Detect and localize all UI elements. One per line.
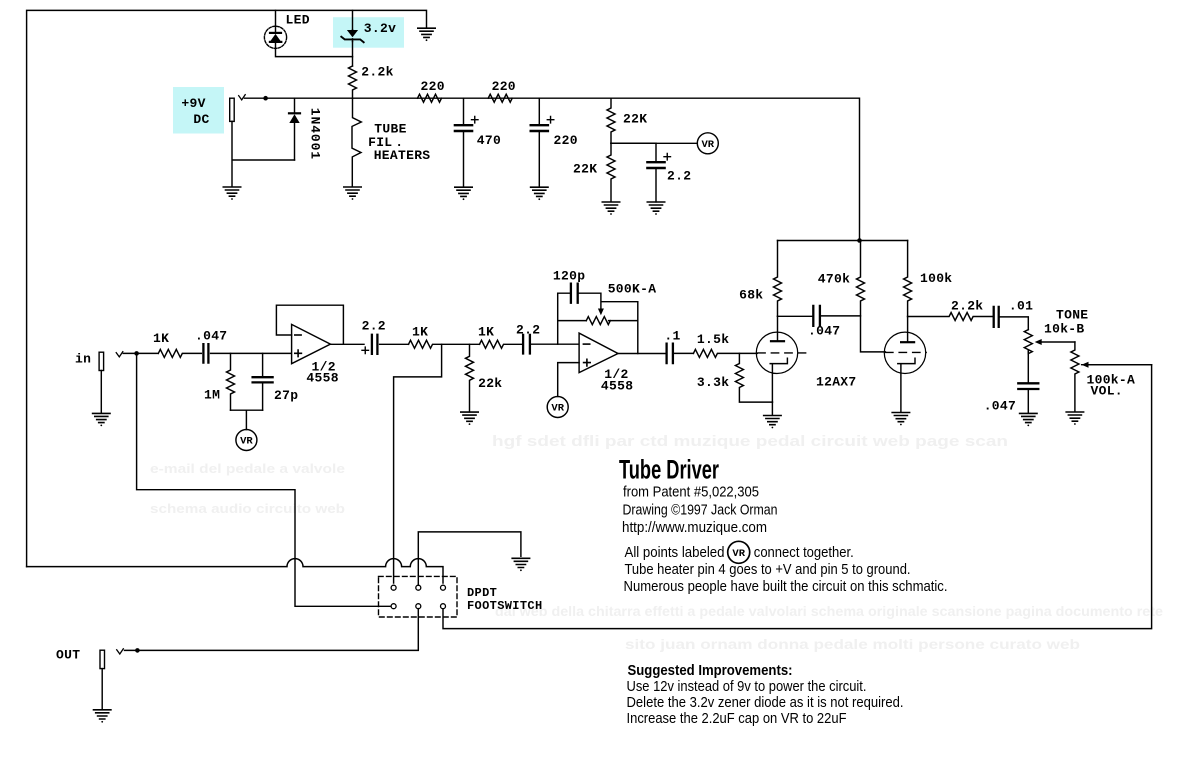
resistor 68k	[774, 241, 782, 317]
svg-text:2.2: 2.2	[516, 323, 540, 338]
svg-text:10k-B: 10k-B	[1044, 322, 1085, 337]
ground vol	[1066, 412, 1083, 425]
svg-text:VR: VR	[701, 139, 714, 151]
svg-text:VR: VR	[732, 548, 745, 560]
diode 1N4001	[289, 98, 300, 160]
ground top right	[418, 28, 435, 41]
wire VR node	[611, 142, 697, 144]
svg-text:3.2v: 3.2v	[364, 21, 396, 36]
capacitor .047 tone	[1018, 350, 1038, 413]
svg-text:1M: 1M	[204, 388, 220, 403]
svg-text:220: 220	[554, 133, 578, 148]
potentiometer VOL 100k-A	[1071, 342, 1152, 412]
resistor 1M	[227, 353, 235, 410]
resistor 1.5k	[693, 349, 757, 357]
wire bypass send	[394, 344, 442, 583]
highlight box +9V DC	[173, 87, 224, 134]
wire cathode1 ground	[771, 402, 773, 415]
wire LED bypass run	[27, 559, 443, 583]
svg-text:dal web della chitarra effetti: dal web della chitarra effetti a pedale …	[495, 603, 1163, 619]
svg-text:1K: 1K	[478, 325, 494, 340]
VR terminal circle input	[236, 430, 257, 451]
wire LED cathode to zener node	[276, 48, 353, 56]
potentiometer TONE 10k-B	[1024, 330, 1075, 354]
svg-text:1N4001: 1N4001	[308, 108, 323, 160]
ground heaters	[344, 187, 361, 200]
svg-text:Increase the 2.2uF cap on VR t: Increase the 2.2uF cap on VR to 22uF	[627, 710, 847, 727]
svg-text:All points labeled: All points labeled	[625, 544, 725, 561]
node dot B+	[857, 238, 862, 243]
svg-text:hgf sdet dfli par ctd muzique: hgf sdet dfli par ctd muzique pedal circ…	[492, 433, 1008, 450]
svg-text:22k: 22k	[478, 376, 502, 391]
tube filament heaters	[352, 98, 361, 187]
svg-text:2.2: 2.2	[362, 319, 386, 334]
svg-text:.047: .047	[808, 324, 840, 339]
wire bias VR drop	[231, 410, 263, 429]
svg-text:+9V: +9V	[181, 96, 205, 111]
capacitor .1	[667, 344, 673, 364]
svg-text:Tube Driver: Tube Driver	[619, 455, 719, 485]
svg-text:FOOTSWITCH: FOOTSWITCH	[467, 599, 543, 613]
wire jack sleeve net	[232, 121, 295, 186]
VR terminal circle U2	[547, 397, 568, 418]
svg-text:4558: 4558	[306, 371, 338, 386]
node dot	[263, 96, 268, 101]
svg-text:.047: .047	[195, 329, 227, 344]
wire to U2 inverting input	[531, 343, 579, 345]
wire footswitch to out	[125, 609, 419, 651]
capacitor 120p	[571, 284, 578, 303]
ground 22k shunt	[461, 412, 478, 425]
ground 470	[455, 187, 472, 200]
wire plate1 to cap	[778, 315, 813, 317]
wire LED anode stub	[275, 10, 277, 26]
svg-text:in: in	[75, 352, 91, 367]
DPDT footswitch	[379, 576, 458, 617]
svg-text:3.3k: 3.3k	[697, 375, 729, 390]
wire bypass return riser	[137, 353, 392, 606]
wire LED/zener top net	[27, 10, 427, 566]
svg-text:120p: 120p	[553, 269, 585, 284]
wire U2 feedback network	[558, 293, 638, 353]
ground 2.2uF	[647, 202, 664, 215]
svg-text:Tube heater pin 4 goes to +V a: Tube heater pin 4 goes to +V and pin 5 t…	[625, 561, 911, 578]
ground footswitch	[512, 558, 529, 571]
wire to 1.5k	[674, 352, 694, 354]
wire to op-amp U1	[211, 352, 292, 354]
highlight box 3.2v	[333, 17, 404, 48]
resistor 22K lower	[607, 143, 615, 202]
resistor 100k	[904, 241, 912, 317]
svg-text:68k: 68k	[739, 288, 763, 303]
svg-text:2.2k: 2.2k	[361, 65, 393, 80]
svg-text:Delete the 3.2v zener diode as: Delete the 3.2v zener diode as it is not…	[627, 694, 904, 711]
capacitor 2.2uF VR	[611, 143, 671, 202]
svg-text:220: 220	[421, 79, 445, 94]
svg-text:Drawing ©1997 Jack Orman: Drawing ©1997 Jack Orman	[623, 502, 778, 519]
capacitor 27p	[253, 353, 273, 410]
resistor 220 b	[488, 94, 512, 102]
wire vol wiper to bypass	[443, 365, 1152, 629]
ground tone cap	[1020, 413, 1037, 426]
svg-text:470k: 470k	[818, 272, 850, 287]
svg-text:VR: VR	[240, 436, 253, 448]
VR terminal circle	[697, 133, 718, 154]
capacitor .01	[994, 307, 999, 327]
svg-text:Use 12v instead of 9v to power: Use 12v instead of 9v to power the circu…	[627, 678, 867, 695]
capacitor 470uF	[455, 98, 478, 187]
svg-text:22K: 22K	[623, 112, 647, 127]
svg-text:e-mail del pedale a valvole: e-mail del pedale a valvole	[150, 461, 345, 476]
wire to 1K	[380, 343, 409, 345]
svg-text:2.2k: 2.2k	[951, 299, 983, 314]
resistor 1K input	[158, 349, 201, 357]
capacitor 2.2uF to U2	[523, 335, 530, 354]
triode V1a 12AX7	[756, 316, 806, 402]
svg-text:sito juan ornam donna pedale m: sito juan ornam donna pedale molti perso…	[625, 636, 1080, 652]
power rail	[245, 98, 860, 240]
svg-text:100k: 100k	[920, 271, 952, 286]
svg-text:2.2: 2.2	[667, 169, 691, 184]
svg-text:DC: DC	[193, 112, 209, 127]
zener diode 3.2v stub	[352, 10, 354, 29]
svg-text:connect together.: connect together.	[754, 544, 854, 561]
svg-text:470: 470	[477, 133, 501, 148]
svg-text:http://www.muzique.com: http://www.muzique.com	[622, 519, 767, 536]
wire U2 output	[618, 353, 666, 355]
svg-text:.1: .1	[664, 329, 680, 344]
ground cathode1	[764, 416, 781, 429]
resistor 2.2k output	[908, 313, 993, 321]
resistor 1K mid b	[480, 340, 523, 348]
resistor 220 a	[418, 94, 442, 102]
plate supply rail	[778, 240, 908, 242]
ground jack	[223, 187, 240, 200]
wire .01 to tone	[1000, 317, 1029, 330]
svg-text:Suggested Improvements:: Suggested Improvements:	[628, 662, 793, 679]
svg-text:HEATERS: HEATERS	[374, 148, 431, 163]
wire zener to 2.2k	[352, 42, 354, 67]
capacitor .047 coupling	[813, 306, 820, 326]
resistor 3.3k	[735, 353, 772, 402]
svg-text:.047: .047	[984, 399, 1016, 414]
jack in	[93, 352, 123, 427]
svg-text:LED: LED	[286, 13, 310, 28]
svg-text:12AX7: 12AX7	[816, 375, 857, 390]
wire U2 non-inverting to VR	[558, 363, 579, 397]
resistor 22k shunt	[466, 344, 474, 412]
svg-text:Numerous people have built the: Numerous people have built the circuit o…	[624, 578, 948, 595]
node dot input	[134, 351, 139, 356]
zener diode 3.2v	[341, 30, 363, 43]
wire U1 feedback	[276, 305, 343, 344]
wire cap to 470k	[821, 315, 861, 317]
svg-text:schema audio circuito web: schema audio circuito web	[150, 501, 345, 516]
VR inline circle	[728, 541, 750, 563]
op-amp U1 1/2 4558	[292, 324, 331, 363]
svg-text:DPDT: DPDT	[467, 586, 497, 600]
wire footswitch ground	[418, 532, 521, 585]
wire U1 output	[330, 343, 364, 345]
ground 22K	[602, 202, 619, 215]
resistor 470k	[857, 241, 886, 352]
svg-text:OUT: OUT	[56, 648, 80, 663]
svg-text:VR: VR	[551, 403, 564, 415]
svg-text:1.5k: 1.5k	[697, 332, 729, 347]
svg-text:1K: 1K	[412, 325, 428, 340]
svg-text:220: 220	[492, 79, 516, 94]
jack out	[94, 649, 124, 723]
svg-text:TONE: TONE	[1056, 308, 1088, 323]
potentiometer 500K-A drive	[586, 309, 610, 325]
resistor 1K mid a	[409, 340, 480, 348]
svg-text:27p: 27p	[274, 388, 298, 403]
capacitor 2.2uF interstage	[362, 335, 377, 354]
svg-text:1K: 1K	[153, 331, 169, 346]
node dot out	[135, 648, 140, 653]
LED D2	[264, 26, 286, 48]
svg-text:VOL.: VOL.	[1091, 383, 1123, 398]
faint watermark ghosts	[150, 433, 1163, 652]
op-amp U2 1/2 4558	[579, 333, 618, 373]
svg-text:500K-A: 500K-A	[608, 282, 657, 297]
wire input	[123, 352, 158, 354]
svg-text:from Patent #5,022,305: from Patent #5,022,305	[623, 484, 759, 501]
svg-text:4558: 4558	[601, 379, 633, 394]
jack +9V	[230, 95, 246, 122]
capacitor .047 input	[203, 344, 208, 363]
ground 220	[531, 187, 548, 200]
svg-text:22K: 22K	[573, 162, 597, 177]
svg-text:.01: .01	[1009, 299, 1033, 314]
capacitor 220uF	[531, 98, 554, 187]
resistor 22K upper	[607, 98, 615, 143]
resistor 2.2k	[349, 66, 357, 98]
triode V1b 12AX7	[884, 317, 926, 426]
